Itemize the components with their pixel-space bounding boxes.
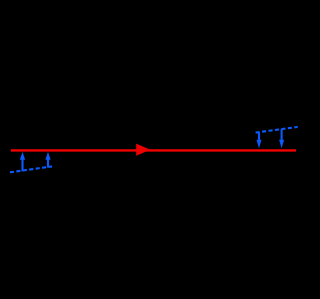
right down arrow 2 shaft — [281, 129, 283, 140]
wire: red horizontal line — [11, 149, 296, 151]
right blue dashed line — [256, 127, 298, 133]
left up arrow 1 shaft — [21, 159, 23, 171]
right down arrow 1 shaft — [258, 132, 260, 140]
left blue dashed line — [10, 166, 52, 172]
left up arrow 2 shaft — [47, 159, 49, 168]
red mid-line arrowhead — [136, 144, 150, 156]
left up arrow 2 head — [45, 152, 50, 160]
left up arrow 1 head — [20, 152, 25, 160]
right down arrow 2 head — [279, 140, 284, 149]
right down arrow 1 head — [257, 140, 262, 149]
